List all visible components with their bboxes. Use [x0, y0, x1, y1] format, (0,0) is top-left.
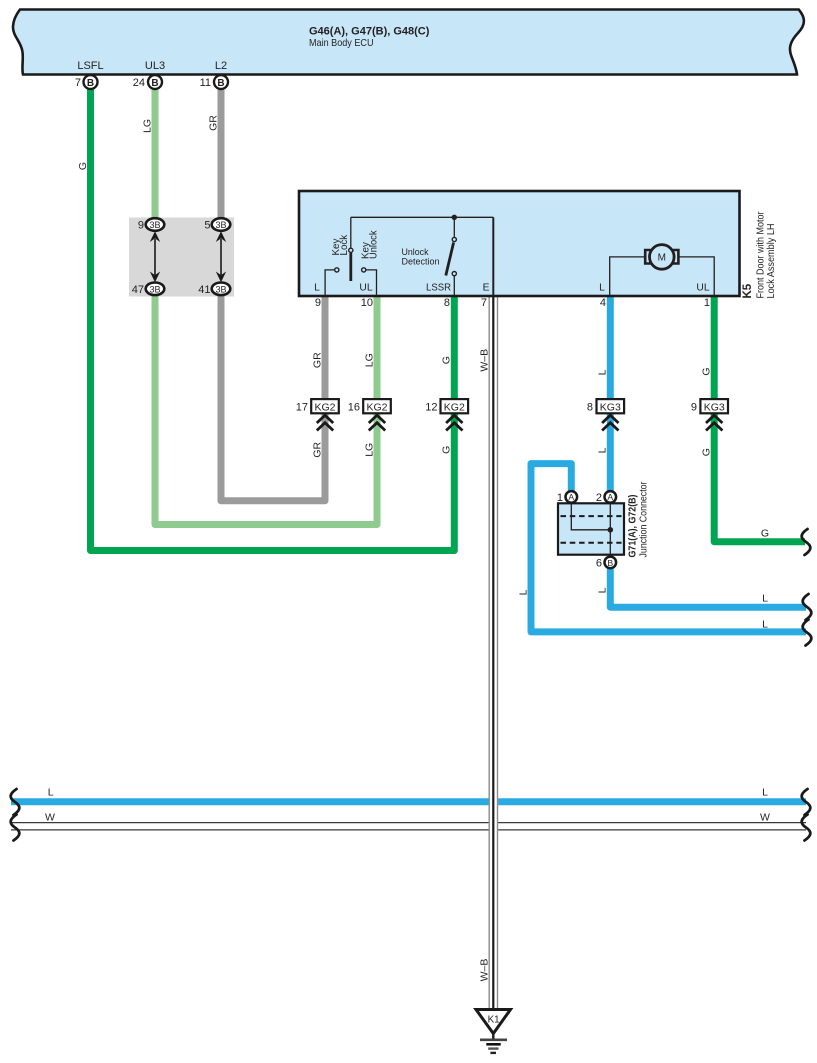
svg-text:B: B: [87, 78, 94, 89]
connector 12 KG2: [425, 399, 468, 430]
svg-text:KG3: KG3: [600, 401, 621, 413]
ground K1: [476, 1010, 511, 1040]
svg-text:G71(A), G72(B): G71(A), G72(B): [628, 495, 639, 558]
continuation squiggle W bottom-left: [11, 815, 20, 841]
E pin wire: [492, 217, 494, 296]
bus label L bottom-right: [762, 787, 768, 799]
wire GR gray upper L2-to-3B: [218, 82, 225, 225]
wire label GR below KG2: [311, 442, 323, 458]
continuation squiggle L bottom-left: [11, 789, 20, 815]
svg-text:GR: GR: [311, 352, 323, 368]
connector 9 3B: [138, 218, 164, 231]
connector 9 KG3: [691, 399, 728, 430]
svg-text:LSFL: LSFL: [77, 60, 103, 72]
K5 name label: [756, 211, 778, 298]
svg-text:G: G: [700, 367, 712, 375]
svg-text:3B: 3B: [149, 285, 160, 295]
motor circuit wires: [610, 257, 715, 296]
svg-text:L: L: [48, 787, 54, 799]
pin 24 B connector UL3: [133, 75, 162, 89]
svg-text:KG2: KG2: [314, 401, 335, 413]
svg-text:2: 2: [596, 492, 602, 504]
wire L blue junction-B6 to right edge: [610, 562, 806, 607]
K5 reference label: [742, 283, 754, 298]
arrow pair right between 3B connectors: [216, 231, 226, 282]
svg-text:12: 12: [425, 401, 437, 413]
connector 41 3B: [198, 283, 230, 296]
svg-text:LG: LG: [363, 353, 375, 367]
svg-text:11: 11: [200, 77, 211, 89]
arrow pair left between 3B connectors: [150, 231, 160, 282]
wire label LG above KG2: [363, 353, 375, 367]
key unlock UL contact: [362, 268, 377, 296]
wire label G: [77, 162, 89, 170]
continuation squiggle L bottom-right: [802, 789, 811, 815]
ground hatch: [480, 1040, 507, 1053]
switch name Key Lock: [331, 235, 350, 256]
svg-text:GR: GR: [311, 442, 323, 458]
svg-text:W–B: W–B: [479, 349, 491, 372]
bus label W bottom-left: [45, 812, 55, 824]
connector 17 KG2: [296, 399, 339, 430]
svg-text:7: 7: [75, 77, 81, 89]
svg-text:6: 6: [596, 557, 602, 569]
svg-text:47: 47: [132, 284, 144, 296]
junction pin 2 A: [596, 491, 616, 504]
wire label LG: [141, 119, 153, 133]
gray shield box 3B pair: [129, 218, 234, 297]
svg-text:B: B: [217, 78, 224, 89]
wire L blue hook junction-A1 to right edge: [531, 464, 806, 632]
continuation squiggle L right lower: [803, 620, 812, 646]
junction pin 6 B: [596, 557, 616, 570]
svg-text:L: L: [597, 369, 609, 375]
svg-text:1: 1: [704, 297, 710, 309]
svg-text:B: B: [607, 558, 613, 568]
svg-text:16: 16: [348, 401, 360, 413]
svg-text:G: G: [441, 356, 453, 364]
wire label L right edge lower: [762, 618, 768, 630]
svg-text:L: L: [762, 593, 768, 605]
wire L blue pin4-to-junction-A2: [607, 296, 614, 497]
svg-text:Lock: Lock: [339, 235, 350, 256]
continuation squiggle W bottom-right: [802, 815, 811, 841]
svg-text:W: W: [760, 812, 770, 824]
svg-text:4: 4: [600, 297, 606, 309]
svg-text:B: B: [151, 78, 158, 89]
wire G green LSFL-to-LSSR: [91, 82, 455, 551]
K5 Front Door Lock Assembly box: [299, 191, 740, 296]
svg-text:5: 5: [204, 220, 210, 232]
wire label W-B lower: [479, 959, 491, 982]
wire label GR: [207, 115, 219, 131]
K5 internal common wire: [351, 215, 494, 220]
wire label L below KG3: [597, 447, 609, 453]
svg-text:KG3: KG3: [704, 401, 725, 413]
svg-text:G: G: [761, 528, 769, 540]
wire label G below KG2: [441, 446, 453, 454]
svg-text:W: W: [45, 812, 55, 824]
wire label GR above KG2: [311, 352, 323, 368]
svg-text:LSSR: LSSR: [426, 283, 451, 294]
wire label G below KG3: [700, 448, 712, 456]
svg-text:G46(A), G47(B), G48(C): G46(A), G47(B), G48(C): [309, 26, 430, 38]
svg-text:Front Door with Motor: Front Door with Motor: [756, 211, 767, 298]
svg-text:7: 7: [481, 297, 487, 309]
bus label W bottom-right: [760, 812, 770, 824]
svg-text:3B: 3B: [215, 220, 226, 230]
svg-text:9: 9: [691, 401, 697, 413]
svg-text:UL: UL: [696, 283, 709, 294]
svg-text:10: 10: [361, 297, 373, 309]
svg-text:L: L: [762, 787, 768, 799]
svg-text:8: 8: [587, 401, 593, 413]
svg-text:G: G: [700, 448, 712, 456]
svg-text:KG2: KG2: [444, 401, 465, 413]
wire label W-B upper: [479, 349, 491, 372]
junction reference label G71(A), G72(B): [628, 495, 639, 558]
junction name label: [639, 481, 650, 557]
unlock detection switch: [446, 217, 457, 296]
connector 5 3B: [204, 218, 230, 231]
switch name Key Unlock: [360, 230, 379, 259]
svg-text:L: L: [762, 618, 768, 630]
wire label L from B: [597, 587, 609, 593]
svg-text:L: L: [597, 587, 609, 593]
Main Body ECU banner: [13, 10, 804, 75]
svg-text:G: G: [77, 162, 89, 170]
svg-text:A: A: [568, 492, 574, 502]
svg-text:G: G: [441, 446, 453, 454]
wire label L hook: [517, 589, 529, 595]
svg-text:W–B: W–B: [479, 959, 491, 982]
svg-text:3B: 3B: [215, 285, 226, 295]
svg-text:KG2: KG2: [366, 401, 387, 413]
svg-text:UL: UL: [359, 283, 372, 294]
svg-text:41: 41: [198, 284, 210, 296]
wire W-B white-black vertical pin7-to-ground: [489, 296, 499, 1010]
wire G green pin1-to-right-edge: [714, 296, 805, 542]
svg-text:9: 9: [138, 220, 144, 232]
svg-text:M: M: [658, 252, 666, 263]
svg-text:A: A: [607, 492, 613, 502]
svg-text:L: L: [314, 283, 320, 294]
motor M: [645, 245, 678, 270]
svg-text:UL3: UL3: [145, 60, 165, 72]
continuation squiggle L right upper: [803, 594, 812, 620]
svg-text:1: 1: [557, 492, 563, 504]
svg-text:17: 17: [296, 401, 308, 413]
wire label L above KG3: [597, 369, 609, 375]
wire LG light-green upper UL3-to-3B: [152, 82, 159, 225]
svg-text:Unlock: Unlock: [369, 230, 380, 259]
wire label G above KG2: [441, 356, 453, 364]
wire label L right edge upper: [762, 593, 768, 605]
svg-text:Junction Connector: Junction Connector: [639, 481, 650, 557]
wire GR gray lower 3B-to-L: [221, 289, 325, 501]
wire label G at right edge: [761, 528, 769, 540]
pin 7 B connector LSFL: [75, 75, 98, 89]
svg-text:K1: K1: [488, 1015, 500, 1026]
switch name Unlock Detection: [402, 247, 440, 267]
svg-text:9: 9: [315, 297, 321, 309]
wire label G above KG3: [700, 367, 712, 375]
continuation squiggle G right: [802, 529, 811, 555]
svg-text:Main Body ECU: Main Body ECU: [309, 37, 374, 49]
junction internal wiring: [571, 497, 613, 562]
connector 47 3B: [132, 283, 165, 296]
svg-text:L: L: [517, 589, 529, 595]
bus wire L blue horizontal: [11, 798, 806, 805]
svg-text:K5: K5: [742, 283, 754, 298]
svg-text:Detection: Detection: [402, 257, 440, 267]
K5 pin labels: [314, 283, 710, 294]
svg-text:E: E: [483, 283, 490, 294]
key lock switch: [349, 217, 353, 281]
svg-text:GR: GR: [207, 115, 219, 131]
svg-text:LG: LG: [363, 443, 375, 457]
K5 pin numbers: [315, 297, 710, 309]
bus wire W white horizontal: [11, 823, 806, 830]
svg-text:L: L: [597, 447, 609, 453]
svg-text:3B: 3B: [149, 220, 160, 230]
connector 8 KG3: [587, 399, 624, 430]
svg-text:L: L: [599, 283, 605, 294]
svg-text:24: 24: [133, 77, 145, 89]
bus label L bottom-left: [48, 787, 54, 799]
svg-text:8: 8: [444, 297, 450, 309]
junction connector G71 box: [558, 503, 624, 554]
junction pin 1 A: [557, 491, 577, 504]
svg-text:LG: LG: [141, 119, 153, 133]
key lock L contact: [325, 268, 339, 296]
svg-text:Unlock: Unlock: [402, 247, 429, 257]
wire LG light-green lower 3B-to-UL: [155, 289, 377, 525]
svg-text:L2: L2: [215, 60, 227, 72]
wire label LG below KG2: [363, 443, 375, 457]
connector 16 KG2: [348, 399, 391, 430]
pin 11 B connector L2: [200, 75, 228, 89]
svg-text:Lock Assembly LH: Lock Assembly LH: [766, 224, 777, 299]
